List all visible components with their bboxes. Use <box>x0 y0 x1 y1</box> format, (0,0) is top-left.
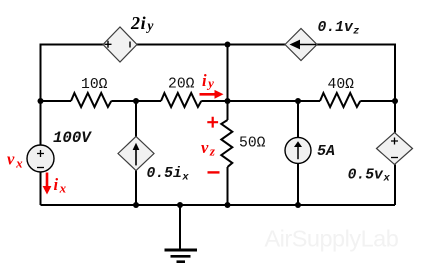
svg-text:40Ω: 40Ω <box>328 77 355 93</box>
svg-text:ix: ix <box>54 175 67 196</box>
svg-text:AirSupplyLab: AirSupplyLab <box>265 226 399 252</box>
svg-text:0.5ix: 0.5ix <box>147 166 190 183</box>
svg-text:20Ω: 20Ω <box>168 77 195 93</box>
svg-text:2iy: 2iy <box>130 13 154 33</box>
svg-text:5A: 5A <box>317 143 335 160</box>
svg-text:100V: 100V <box>53 129 92 147</box>
svg-text:0.1vz: 0.1vz <box>318 20 360 37</box>
svg-text:10Ω: 10Ω <box>81 77 108 93</box>
svg-text:iy: iy <box>202 71 214 91</box>
svg-text:vz: vz <box>201 138 216 159</box>
svg-text:vx: vx <box>7 150 23 171</box>
svg-text:50Ω: 50Ω <box>239 136 266 152</box>
svg-text:0.5vx: 0.5vx <box>348 167 391 184</box>
